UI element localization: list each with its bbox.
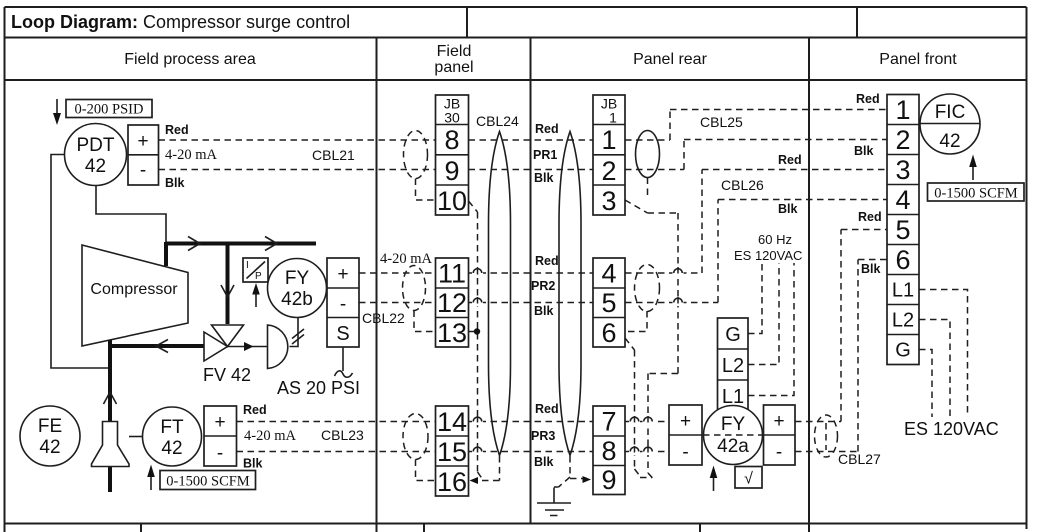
svg-text:12: 12	[437, 288, 467, 318]
range label 0-1500 SCFM (panel front)	[928, 183, 1025, 202]
svg-text:ES 120VAC: ES 120VAC	[734, 248, 802, 263]
svg-text:2: 2	[895, 125, 910, 155]
terminal strip JB30 middle block	[436, 258, 469, 348]
range label 0-1500 SCFM (field)	[160, 471, 256, 490]
svg-text:+: +	[214, 412, 225, 433]
wire JB30-14 to JB1-7	[469, 421, 594, 423]
label pair PR1	[533, 148, 557, 162]
FT terminal box +/-	[204, 406, 237, 466]
svg-text:14: 14	[437, 407, 467, 437]
down arrow at 0-200 PSID	[53, 99, 61, 125]
label Red (PR2)	[535, 254, 559, 268]
label cable CBL22	[362, 310, 405, 326]
drain JB1-6 down to join	[625, 338, 652, 478]
wire JB30-9 to JB1-2	[469, 169, 594, 171]
impulse line PDT low side to suction pipe	[51, 155, 110, 369]
suction pipe vertical	[108, 340, 112, 492]
air supply line from S	[335, 347, 353, 377]
label cable CBL25	[700, 114, 743, 130]
svg-text:10: 10	[437, 186, 467, 216]
svg-text:42: 42	[161, 438, 182, 459]
transmitter FT 42	[143, 407, 202, 466]
wire JB30-15 to JB1-8	[469, 451, 594, 453]
svg-text:L1: L1	[892, 280, 914, 302]
terminal strip JB1 upper block	[593, 95, 625, 216]
up arrow under FIC	[969, 155, 977, 181]
label Blk (CBL21)	[165, 176, 185, 190]
svg-text:FV 42: FV 42	[203, 365, 251, 385]
transmitter PDT 42	[65, 124, 127, 186]
label ES 120VAC (panel front)	[904, 419, 999, 439]
CBL26 riser blk to panel front 4	[718, 200, 887, 303]
CBL27 riser blk to panel front 6	[858, 260, 887, 452]
svg-text:6: 6	[895, 245, 910, 275]
flow nozzle symbol	[92, 422, 130, 467]
svg-text:Red: Red	[535, 402, 559, 416]
svg-text:Compressor: Compressor	[90, 281, 178, 298]
svg-text:Red: Red	[856, 92, 880, 106]
label cable CBL26	[721, 177, 764, 193]
svg-text:Blk: Blk	[534, 304, 554, 318]
svg-text:1: 1	[895, 95, 910, 125]
svg-text:6: 6	[601, 318, 616, 348]
label 4-20 mA (CBL22)	[380, 251, 432, 267]
title text	[11, 12, 350, 32]
terminal strip JB30 upper block	[436, 95, 469, 216]
svg-text:I: I	[246, 260, 249, 271]
shield oval CBL25 (solid)	[636, 131, 660, 178]
svg-text:L2: L2	[722, 355, 744, 377]
shield oval CBL27	[815, 415, 838, 457]
flow arrow on discharge pipe 2	[265, 237, 277, 251]
svg-text:4-20 mA: 4-20 mA	[165, 147, 217, 163]
svg-text:Blk: Blk	[534, 455, 554, 469]
svg-text:60 Hz: 60 Hz	[758, 232, 792, 247]
svg-text:15: 15	[437, 437, 467, 467]
svg-text:2: 2	[601, 156, 616, 186]
svg-text:Blk: Blk	[165, 176, 185, 190]
svg-text:-: -	[217, 443, 223, 464]
svg-text:4: 4	[895, 185, 910, 215]
svg-text:Red: Red	[535, 122, 559, 136]
label Blk (CBL26)	[778, 202, 798, 216]
svg-text:4-20 mA: 4-20 mA	[244, 428, 296, 444]
compressor body	[82, 245, 188, 346]
svg-text:42: 42	[85, 156, 106, 177]
wire FY42b + to JB30-11	[359, 272, 436, 274]
svg-text:L2: L2	[892, 310, 914, 332]
label 4-20 mA (CBL23)	[244, 428, 296, 444]
svg-text:S: S	[336, 323, 349, 345]
shield drain CBL21 to JB30-10	[416, 179, 436, 201]
svg-text:PR3: PR3	[531, 429, 555, 443]
svg-text:FE: FE	[38, 416, 62, 437]
svg-text:+: +	[137, 131, 148, 152]
svg-text:Panel rear: Panel rear	[633, 51, 707, 68]
svg-text:CBL25: CBL25	[700, 114, 743, 130]
FY42b terminal box + - S	[327, 258, 359, 347]
controller FIC 42	[920, 94, 980, 154]
up arrow under FY42a	[710, 466, 718, 492]
svg-text:AS 20 PSI: AS 20 PSI	[277, 378, 360, 398]
label Red (PR1)	[535, 122, 559, 136]
label cable CBL23	[321, 427, 364, 443]
svg-text:7: 7	[601, 407, 616, 437]
junction dot at JB30-13	[469, 328, 481, 334]
wire FY42a right - into CBL27	[795, 451, 858, 453]
wire JB1-2 up and over to panel front 2	[625, 140, 887, 170]
FY42a left terminal box +/-	[669, 405, 702, 465]
range label 0-200 PSID	[66, 100, 152, 118]
label Blk (PR3)	[534, 455, 554, 469]
label AS 20 PSI	[277, 378, 360, 398]
svg-text:Field: Field	[437, 43, 472, 60]
flow element FE 42	[20, 406, 80, 466]
svg-text:-: -	[776, 442, 782, 463]
svg-text:42b: 42b	[281, 289, 313, 310]
label pair PR3	[531, 429, 555, 443]
power feeds to G L2 L1	[748, 263, 794, 396]
label Blk (PR2)	[534, 304, 554, 318]
relay FY 42a	[703, 406, 763, 465]
wire PDT + to JB30-8 (CBL21 red)	[159, 139, 436, 141]
svg-text:9: 9	[444, 156, 459, 186]
terminal strip G L2 L1	[718, 318, 749, 411]
svg-text:1: 1	[601, 125, 616, 155]
svg-text:-: -	[682, 442, 688, 463]
CBL27 riser red to panel front 5	[841, 230, 887, 422]
svg-text:PR2: PR2	[531, 279, 555, 293]
wire FY42b - to JB30-12	[359, 302, 436, 304]
cable CBL24 field-panel oval	[489, 132, 511, 456]
terminal strip panel front	[887, 95, 919, 365]
power feeds from panel front L1 L2 G	[919, 290, 968, 418]
svg-text:8: 8	[444, 125, 459, 155]
ground	[537, 488, 571, 516]
CBL26 riser red to panel front 3	[702, 170, 887, 274]
svg-text:CBL22: CBL22	[362, 310, 405, 326]
svg-text:42: 42	[39, 437, 60, 458]
up arrow at field 0-1500 SCFM	[147, 465, 155, 491]
svg-text:9: 9	[601, 465, 616, 495]
svg-text:Red: Red	[243, 403, 267, 417]
label pair PR2	[531, 279, 555, 293]
svg-text:ES 120VAC: ES 120VAC	[904, 419, 999, 439]
svg-text:FY: FY	[721, 414, 746, 435]
shield oval CBL23	[403, 414, 428, 460]
label Red (PR3)	[535, 402, 559, 416]
svg-text:Field process area: Field process area	[124, 51, 256, 68]
suction pipe horizontal	[110, 344, 206, 348]
recycle pipe down to FV42	[226, 244, 230, 325]
wire JB1-4 to CBL26 riser	[625, 272, 702, 274]
label Blk (CBL23)	[243, 457, 263, 471]
hops where drains cross PR2 wires	[673, 267, 684, 308]
label Red (CBL21)	[165, 123, 189, 137]
label Blk (panel front 6)	[861, 262, 881, 276]
shield oval CBL26 (dashed)	[635, 265, 660, 312]
column header: Field process area	[124, 51, 256, 68]
svg-text:0-200 PSID: 0-200 PSID	[75, 102, 144, 118]
svg-text:42a: 42a	[717, 436, 749, 457]
shield drain CBL26 oval to JB1-6	[625, 311, 647, 332]
svg-text:Blk: Blk	[534, 171, 554, 185]
svg-text:PR1: PR1	[533, 148, 557, 162]
column header: Panel rear	[633, 51, 707, 68]
svg-text:PDT: PDT	[77, 135, 115, 156]
wire FY42a right + into CBL27	[795, 421, 841, 423]
svg-text:panel: panel	[434, 59, 473, 76]
wire FT + to JB30-14	[237, 421, 436, 423]
FY42a right terminal box +/-	[764, 405, 796, 465]
svg-text:√: √	[744, 471, 753, 488]
label Red (CBL23)	[243, 403, 267, 417]
wire JB1-5 to CBL26 riser	[625, 302, 718, 304]
control valve FV 42	[204, 325, 244, 361]
label ES 120VAC (rear)	[734, 248, 802, 263]
PDT terminal box +/-	[128, 125, 159, 185]
cable CBL24 panel-rear oval	[559, 132, 581, 456]
I/P converter box	[243, 258, 268, 282]
wire JB30-8 to JB1-1	[469, 139, 594, 141]
flow arrow on discharge pipe 1	[188, 237, 200, 251]
shield drain CBL22 to JB30-13	[414, 311, 436, 332]
svg-text:Red: Red	[778, 153, 802, 167]
svg-text:8: 8	[601, 436, 616, 466]
svg-text:0-1500 SCFM: 0-1500 SCFM	[934, 186, 1018, 202]
svg-text:Blk: Blk	[778, 202, 798, 216]
svg-text:CBL23: CBL23	[321, 427, 364, 443]
CBL24 shield tail to ground and JB1-9	[554, 456, 591, 487]
label Red (panel front 1)	[856, 92, 880, 106]
svg-text:G: G	[895, 340, 911, 362]
svg-text:0-1500 SCFM: 0-1500 SCFM	[166, 474, 250, 490]
impulse line PDT high side to discharge pipe	[96, 186, 166, 244]
svg-text:FIC: FIC	[935, 102, 966, 123]
label Red (CBL26)	[778, 153, 802, 167]
svg-text:1: 1	[609, 110, 617, 126]
svg-text:CBL24: CBL24	[476, 113, 519, 129]
svg-text:4: 4	[601, 259, 616, 289]
shield oval CBL21	[404, 131, 428, 179]
wire JB30-12 to JB1-5	[469, 302, 594, 304]
discharge pipe	[166, 242, 316, 266]
svg-text:13: 13	[437, 318, 467, 348]
hop crossings on drain bus	[472, 268, 483, 456]
svg-text:5: 5	[895, 215, 910, 245]
label cable CBL24	[476, 113, 519, 129]
svg-text:Blk: Blk	[861, 262, 881, 276]
flow arrow down on recycle pipe	[221, 285, 234, 297]
svg-text:Red: Red	[535, 254, 559, 268]
flow arrow left on suction pipe	[156, 340, 168, 353]
wire JB1-8 to FY42a -	[625, 451, 669, 453]
label Blk (PR1)	[534, 171, 554, 185]
svg-text:Panel front: Panel front	[879, 51, 957, 68]
svg-text:Loop Diagram: Compressor surge: Loop Diagram: Compressor surge control	[11, 12, 350, 32]
wire JB1-7 to FY42a +	[625, 421, 669, 423]
hops where drains cross PR3 wires	[629, 416, 654, 456]
wire JB30-11 to JB1-4	[469, 272, 594, 274]
wire PDT - to JB30-9 (CBL21 blk)	[159, 169, 436, 171]
svg-text:5: 5	[601, 288, 616, 318]
shield drain CBL23 to JB30-16	[416, 460, 436, 481]
svg-text:CBL21: CBL21	[312, 147, 355, 163]
svg-text:11: 11	[438, 259, 466, 289]
terminal strip JB30 lower block	[436, 406, 469, 497]
svg-text:4-20 mA: 4-20 mA	[380, 251, 432, 267]
svg-text:3: 3	[601, 186, 616, 216]
svg-text:CBL27: CBL27	[838, 451, 881, 467]
svg-text:16: 16	[437, 467, 467, 497]
wire FT - to JB30-15	[237, 451, 436, 453]
square root box	[735, 467, 762, 489]
flow arrow up on suction pipe	[104, 392, 117, 404]
svg-text:P: P	[255, 271, 262, 282]
valve outlet line to actuator	[228, 342, 268, 351]
svg-text:CBL26: CBL26	[721, 177, 764, 193]
wire JB1-1 up and over to panel front 1	[625, 110, 887, 141]
terminal strip JB1 middle block	[593, 258, 625, 348]
label Blk (panel front 2)	[854, 144, 874, 158]
column header: Panel front	[879, 51, 957, 68]
svg-text:+: +	[337, 264, 348, 285]
link nozzle to FT	[129, 436, 143, 438]
svg-text:+: +	[773, 411, 784, 432]
svg-text:-: -	[140, 160, 146, 181]
terminal strip JB1 lower block	[593, 406, 625, 495]
svg-text:Red: Red	[858, 210, 882, 224]
label 60 Hz	[758, 232, 792, 247]
svg-text:-: -	[340, 294, 346, 315]
svg-text:Blk: Blk	[854, 144, 874, 158]
converter FY 42b	[268, 259, 327, 318]
up arrow under I/P	[252, 283, 260, 307]
shield oval CBL22	[403, 266, 426, 311]
label 4-20 mA (CBL21)	[165, 147, 217, 163]
svg-text:+: +	[680, 411, 691, 432]
label cable CBL21	[312, 147, 355, 163]
svg-text:3: 3	[895, 155, 910, 185]
svg-text:30: 30	[444, 110, 460, 126]
svg-text:Red: Red	[165, 123, 189, 137]
svg-text:Blk: Blk	[243, 457, 263, 471]
column header: Field panel	[434, 43, 473, 76]
label FV 42	[203, 365, 251, 385]
label Red (panel front 5)	[858, 210, 882, 224]
label cable CBL27	[838, 451, 881, 467]
svg-text:FY: FY	[285, 268, 310, 289]
signal line FY42b to actuator with pneumatic hashes	[290, 318, 305, 347]
shield drain CBL25: JB1-3 and oval to bus	[625, 178, 678, 479]
svg-text:G: G	[725, 324, 741, 346]
valve actuator diaphragm	[268, 325, 288, 369]
svg-text:42: 42	[939, 131, 960, 152]
drain bus JB30-10 down	[469, 201, 483, 479]
CBL24 shield tail to JB30-16	[470, 456, 500, 484]
svg-text:FT: FT	[160, 417, 184, 438]
